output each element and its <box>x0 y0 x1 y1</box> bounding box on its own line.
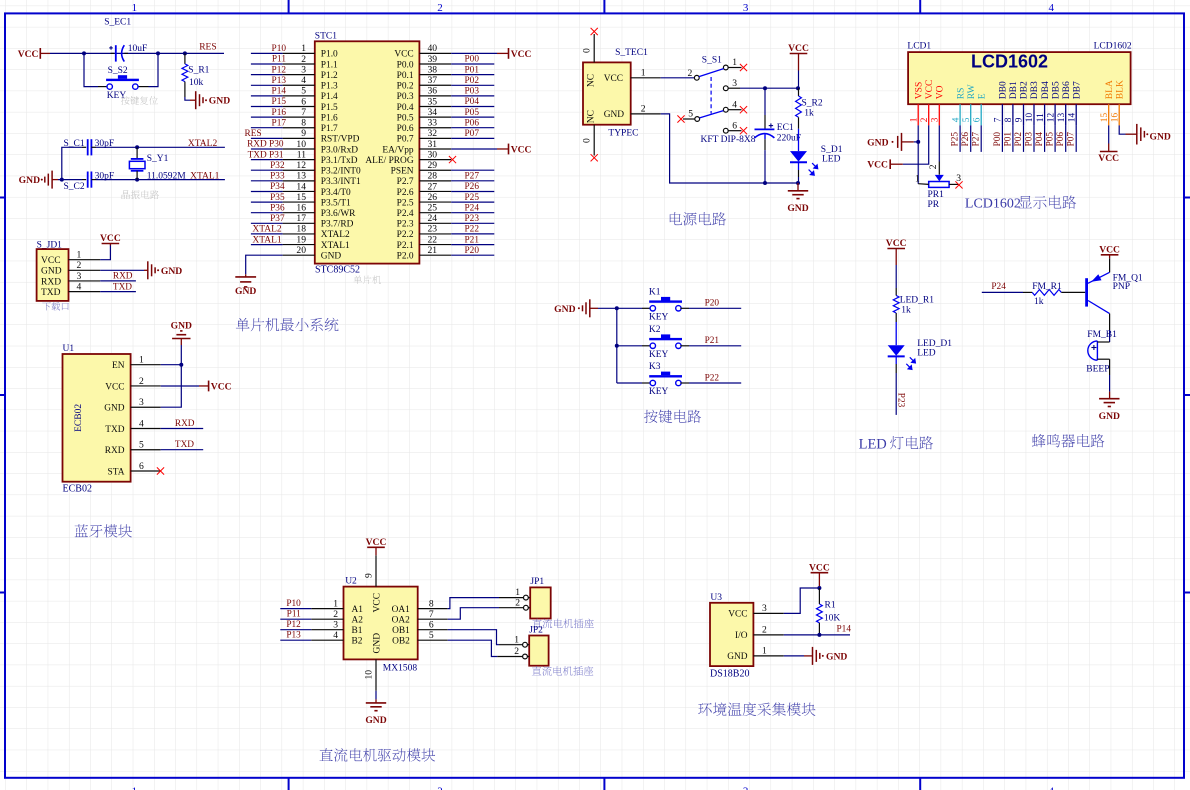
svg-text:1: 1 <box>514 634 519 645</box>
power ground GND (buzzer) <box>1099 399 1120 422</box>
svg-text:GND: GND <box>161 266 182 277</box>
svg-text:34: 34 <box>428 107 438 118</box>
wire S_JD1 pin3 RXD <box>100 272 136 282</box>
switch S_S2 KEY (reset key) <box>84 53 158 100</box>
svg-text:GND: GND <box>1099 411 1120 422</box>
svg-text:LCD1602: LCD1602 <box>1094 42 1132 52</box>
svg-text:2: 2 <box>514 646 519 657</box>
svg-text:2: 2 <box>77 260 82 271</box>
svg-text:10k: 10k <box>189 78 204 88</box>
svg-text:P2.1: P2.1 <box>397 241 414 251</box>
svg-text:P3.1/TxD: P3.1/TxD <box>321 156 358 166</box>
svg-text:13: 13 <box>1057 113 1067 123</box>
wire S_JD1 pin1 to VCC <box>100 246 110 260</box>
power port VCC (U3) <box>809 562 830 588</box>
svg-text:P07: P07 <box>465 129 480 139</box>
svg-text:P0.6: P0.6 <box>397 124 414 134</box>
svg-text:BLA: BLA <box>1105 80 1115 99</box>
svg-text:TXD P31: TXD P31 <box>248 150 284 160</box>
svg-text:VCC: VCC <box>105 382 124 392</box>
wire OA1 to JP1 pin1 <box>448 598 499 609</box>
svg-text:3: 3 <box>301 64 306 75</box>
wire U1 pin5 net TXD <box>161 440 204 450</box>
svg-text:22: 22 <box>428 234 438 245</box>
capacitor S_C2 30pF <box>64 171 115 192</box>
wire+net XTAL2 (STC1 pin18) <box>251 225 283 235</box>
svg-text:GND: GND <box>19 175 40 186</box>
LED LED_D1 <box>888 322 953 415</box>
svg-text:KEY: KEY <box>649 313 669 323</box>
resistor S_R2 1k <box>796 88 823 129</box>
svg-text:P17: P17 <box>272 118 287 128</box>
svg-text:P14: P14 <box>272 87 287 97</box>
svg-text:P1.5: P1.5 <box>321 103 338 113</box>
svg-text:VCC: VCC <box>366 537 387 548</box>
no-connect X on U1 pin6 <box>157 467 164 474</box>
wire U1 pin1 EN to GND <box>161 339 184 367</box>
svg-text:P04: P04 <box>465 97 480 107</box>
svg-text:P26: P26 <box>961 132 971 147</box>
svg-text:KFT DIP-8X8: KFT DIP-8X8 <box>701 135 756 145</box>
svg-text:10: 10 <box>364 670 375 680</box>
svg-text:DB0: DB0 <box>999 81 1009 99</box>
svg-text:JP1: JP1 <box>530 577 544 587</box>
svg-text:NC: NC <box>587 74 597 87</box>
S_TEC1 pin1 stub <box>631 67 661 78</box>
svg-text:4: 4 <box>139 418 144 429</box>
svg-text:TXD: TXD <box>113 282 132 292</box>
svg-text:4: 4 <box>732 99 737 110</box>
svg-text:U2: U2 <box>345 576 357 586</box>
junction dots bottom rail <box>763 181 800 185</box>
svg-text:7: 7 <box>301 107 306 118</box>
svg-text:0: 0 <box>582 138 593 143</box>
power port VCC (LED) <box>886 238 907 288</box>
power ground GND (power circuit) <box>787 183 808 214</box>
power ground GND (backlight) <box>1126 124 1171 145</box>
svg-text:VCC: VCC <box>604 74 623 84</box>
svg-text:JP2: JP2 <box>529 625 543 635</box>
power ground GND (crystal) <box>19 171 58 189</box>
svg-text:13: 13 <box>296 171 306 182</box>
svg-text:1: 1 <box>762 646 767 657</box>
svg-text:P10: P10 <box>286 599 301 609</box>
svg-text:P10: P10 <box>272 44 287 54</box>
svg-text:0: 0 <box>582 48 593 53</box>
svg-text:6: 6 <box>139 461 144 472</box>
svg-text:S_S2: S_S2 <box>108 66 128 76</box>
wire VCC to RES net <box>40 52 224 54</box>
svg-text:P1.1: P1.1 <box>321 60 338 70</box>
svg-text:S_C2: S_C2 <box>64 182 85 192</box>
svg-text:3: 3 <box>333 620 338 631</box>
svg-text:P22: P22 <box>465 225 480 235</box>
svg-text:E: E <box>977 93 987 99</box>
STC1 left wires rows 1-8 with net labels P10-P17 <box>251 44 286 128</box>
power port VCC (LCD) <box>867 159 890 170</box>
svg-text:5: 5 <box>429 630 434 641</box>
svg-text:7: 7 <box>994 117 1004 122</box>
wire LCD pin15 BLA to VCC <box>1108 125 1110 151</box>
LCD display LCD1 LCD1602 <box>907 42 1131 105</box>
svg-text:2: 2 <box>437 2 443 14</box>
svg-text:RES: RES <box>199 43 216 53</box>
svg-text:GND: GND <box>209 96 230 107</box>
no-connect X on STC1 pin30 <box>449 156 456 163</box>
svg-text:1: 1 <box>77 250 82 261</box>
svg-text:P13: P13 <box>286 631 301 641</box>
svg-text:P0.1: P0.1 <box>397 71 414 81</box>
svg-text:38: 38 <box>428 64 438 75</box>
power ground GND (S_JD1) <box>144 261 182 279</box>
wire OB2 to JP2 pin2 <box>448 640 498 656</box>
wire+net RES (STC1 pin9) <box>245 129 283 139</box>
svg-text:LCD1: LCD1 <box>907 42 931 52</box>
svg-text:DB7: DB7 <box>1072 81 1082 99</box>
svg-text:XTAL1: XTAL1 <box>321 241 350 251</box>
svg-text:P21: P21 <box>705 336 720 346</box>
svg-text:U3: U3 <box>710 593 722 603</box>
svg-text:2: 2 <box>920 117 930 122</box>
net label XTAL2 <box>188 139 218 149</box>
svg-text:P34: P34 <box>270 182 285 192</box>
svg-text:11: 11 <box>297 149 306 160</box>
svg-text:P14: P14 <box>837 625 852 635</box>
wire S_JD1 pin2 to GND <box>100 269 144 271</box>
wire U3 pin2 I/O net P14 <box>784 625 852 637</box>
svg-text:2: 2 <box>437 786 443 790</box>
svg-text:RXD: RXD <box>105 446 125 456</box>
wire STC1 pin40 VCC port <box>451 48 531 60</box>
wire+nets RXD P30 (STC1 pin10) <box>247 140 284 150</box>
wire LCD pin2 to VCC port <box>890 125 929 164</box>
svg-text:KEY: KEY <box>649 350 669 360</box>
transistor FM_Q1 PNP <box>1085 258 1143 313</box>
svg-text:P05: P05 <box>1046 132 1056 147</box>
power port VCC (buzzer) <box>1099 244 1120 258</box>
svg-text:VCC: VCC <box>41 256 61 266</box>
svg-text:R1: R1 <box>825 600 836 610</box>
svg-text:P3.0/RxD: P3.0/RxD <box>321 145 358 155</box>
title 蓝牙模块 <box>75 524 132 537</box>
svg-text:DB6: DB6 <box>1062 81 1072 99</box>
switch K2 KEY <box>617 325 689 360</box>
svg-text:BEEP: BEEP <box>1086 365 1109 375</box>
wire C1 to XTAL2 <box>96 145 225 149</box>
svg-text:GND: GND <box>41 267 62 277</box>
svg-text:37: 37 <box>428 75 438 86</box>
svg-text:1k: 1k <box>1034 297 1044 307</box>
wire+net P20 <box>689 299 741 309</box>
svg-text:21: 21 <box>428 245 438 256</box>
power ground GND (reset) <box>190 91 230 109</box>
svg-text:GND: GND <box>1150 131 1171 142</box>
capacitor EC1 220uF electrolytic <box>755 88 802 183</box>
svg-text:3: 3 <box>743 2 749 14</box>
svg-text:P02: P02 <box>1014 132 1024 147</box>
svg-text:4: 4 <box>1048 786 1054 790</box>
svg-text:1: 1 <box>132 786 138 790</box>
svg-text:VCC: VCC <box>1099 244 1120 255</box>
svg-text:3: 3 <box>931 117 941 122</box>
resistor S_R1 10k <box>182 53 210 100</box>
svg-text:P0.0: P0.0 <box>397 60 414 70</box>
svg-text:35: 35 <box>428 96 438 107</box>
resistor R1 10K <box>817 588 841 635</box>
annotation 单片机 <box>353 275 381 284</box>
svg-text:P05: P05 <box>465 108 480 118</box>
svg-text:8: 8 <box>429 598 434 609</box>
svg-text:VCC: VCC <box>1098 153 1119 164</box>
svg-text:3: 3 <box>139 397 144 408</box>
svg-text:OB2: OB2 <box>392 637 410 647</box>
svg-text:S_R1: S_R1 <box>188 66 209 76</box>
svg-text:VCC: VCC <box>211 381 232 392</box>
power port VCC (backlight) <box>1098 152 1119 165</box>
svg-text:31: 31 <box>428 139 438 150</box>
U2 right pin stubs with numbers 8-5 <box>418 598 448 641</box>
svg-text:P24: P24 <box>465 203 480 213</box>
svg-text:PR1: PR1 <box>928 190 945 200</box>
svg-text:8: 8 <box>301 118 306 129</box>
svg-text:DB3: DB3 <box>1030 81 1040 99</box>
svg-text:1: 1 <box>139 355 144 366</box>
svg-text:RS: RS <box>956 88 966 100</box>
svg-text:DB2: DB2 <box>1020 81 1030 99</box>
annotation 下载口 <box>42 302 68 310</box>
LED S_D1 (power) <box>790 129 843 183</box>
svg-text:P27: P27 <box>465 172 480 182</box>
svg-text:GND: GND <box>104 404 125 414</box>
svg-text:14: 14 <box>1067 113 1077 123</box>
svg-text:3: 3 <box>77 271 82 282</box>
label 直流电机插座 (JP1) <box>532 619 593 629</box>
wire S_JD1 pin4 TXD <box>100 282 136 292</box>
svg-text:4: 4 <box>1048 2 1054 14</box>
svg-text:RXD: RXD <box>175 419 195 429</box>
svg-text:30: 30 <box>428 149 438 160</box>
svg-text:RES: RES <box>245 129 262 139</box>
svg-text:6: 6 <box>732 120 737 131</box>
label 直流电机插座 (JP2) <box>532 666 593 676</box>
wire U1 pin4 net RXD <box>161 419 204 429</box>
wire+net P22 <box>689 373 741 383</box>
svg-text:ALE/ PROG: ALE/ PROG <box>365 156 413 166</box>
svg-text:1: 1 <box>909 117 919 122</box>
svg-text:P12: P12 <box>286 620 301 630</box>
svg-text:P1.2: P1.2 <box>321 71 338 81</box>
svg-text:P15: P15 <box>272 97 287 107</box>
title 蜂鸣器电路 <box>1032 434 1104 447</box>
junction dots on reset rail <box>82 51 187 55</box>
svg-text:TXD: TXD <box>175 440 194 450</box>
STC1 right wires rows 2-9 with net labels P00-P07 <box>451 55 494 139</box>
power ground GND (keys) <box>554 299 598 317</box>
wire+net P21 <box>689 336 741 346</box>
svg-text:3: 3 <box>732 78 737 89</box>
svg-text:P00: P00 <box>993 132 1003 147</box>
svg-text:P26: P26 <box>465 182 480 192</box>
svg-text:U1: U1 <box>63 344 75 354</box>
svg-text:P22: P22 <box>705 373 720 383</box>
svg-text:P37: P37 <box>270 214 285 224</box>
svg-text:TXD: TXD <box>105 425 124 435</box>
svg-text:5: 5 <box>688 108 693 119</box>
svg-text:11.0592M: 11.0592M <box>147 171 187 181</box>
pin6 no-connect X <box>728 127 747 134</box>
svg-text:5: 5 <box>301 86 306 97</box>
svg-text:9: 9 <box>364 573 375 578</box>
svg-text:P25: P25 <box>951 132 961 147</box>
svg-text:P12: P12 <box>272 65 287 75</box>
svg-text:A1: A1 <box>352 605 364 615</box>
svg-text:6: 6 <box>429 620 434 631</box>
svg-text:10: 10 <box>1025 113 1035 123</box>
svg-text:VCC: VCC <box>728 610 747 620</box>
STC1 left wires rows 12-17 with net labels P32-P37 <box>251 161 285 224</box>
svg-text:NC: NC <box>587 110 597 123</box>
connector JP2 <box>497 625 548 665</box>
svg-text:EA/Vpp: EA/Vpp <box>382 145 414 155</box>
svg-text:36: 36 <box>428 86 438 97</box>
svg-text:DB4: DB4 <box>1041 81 1051 99</box>
capacitor S_C1 30pF <box>64 139 115 155</box>
svg-text:19: 19 <box>296 234 306 245</box>
svg-text:S_S1: S_S1 <box>702 56 722 66</box>
svg-text:2: 2 <box>333 609 338 620</box>
svg-text:PNP: PNP <box>1113 282 1130 292</box>
svg-text:P2.4: P2.4 <box>397 209 414 219</box>
svg-text:OA2: OA2 <box>392 616 411 626</box>
LCD pin stubs and pin numbers 1-16 <box>909 104 1120 125</box>
potentiometer PR1 PR <box>915 173 961 210</box>
svg-text:VSS: VSS <box>914 82 924 99</box>
svg-text:GND: GND <box>727 652 748 662</box>
connector JP1 <box>499 577 551 618</box>
svg-text:ECB02: ECB02 <box>63 484 92 495</box>
svg-text:XTAL1: XTAL1 <box>252 235 282 245</box>
wire U3 pin3 VCC to R1 top <box>784 586 822 613</box>
svg-text:GND: GND <box>321 251 342 261</box>
svg-text:25: 25 <box>428 203 438 214</box>
svg-text:11: 11 <box>1036 113 1046 122</box>
svg-text:GND: GND <box>373 633 383 654</box>
svg-text:3: 3 <box>762 603 767 614</box>
svg-text:RXD: RXD <box>113 272 133 282</box>
crystal S_Y1 11.0592M <box>129 147 186 181</box>
svg-text:220uF: 220uF <box>777 133 801 143</box>
title 直流电机驱动模块 <box>320 748 436 762</box>
svg-text:10: 10 <box>296 139 306 150</box>
svg-text:P2.0: P2.0 <box>397 251 414 261</box>
svg-text:4: 4 <box>77 281 82 292</box>
svg-text:P33: P33 <box>270 172 285 182</box>
svg-text:23: 23 <box>428 224 438 235</box>
svg-text:P23: P23 <box>465 214 480 224</box>
svg-text:K3: K3 <box>649 362 661 372</box>
wire STC1 pin31 VCC port <box>451 144 531 156</box>
svg-text:39: 39 <box>428 54 438 65</box>
microcontroller STC1 STC89C52 <box>315 31 420 275</box>
resistor LED_R1 1k <box>893 288 934 322</box>
svg-text:P11: P11 <box>287 610 301 620</box>
power ground GND (STC1 pin20) <box>235 277 256 297</box>
title 电源电路 <box>670 212 726 225</box>
svg-text:STA: STA <box>108 467 125 477</box>
svg-text:P1.7: P1.7 <box>321 124 338 134</box>
resistor FM_R1 1k <box>1023 282 1085 307</box>
svg-text:LCD1602: LCD1602 <box>971 52 1048 72</box>
wire+net XTAL1 (STC1 pin19) <box>251 235 283 245</box>
svg-text:TYPEC: TYPEC <box>608 129 638 139</box>
svg-text:KEY: KEY <box>649 387 669 397</box>
svg-text:24: 24 <box>428 213 438 224</box>
svg-text:P32: P32 <box>270 161 285 171</box>
svg-text:P3.6/WR: P3.6/WR <box>321 209 356 219</box>
svg-text:P0.3: P0.3 <box>397 92 414 102</box>
svg-text:2: 2 <box>688 68 693 79</box>
svg-text:S_C1: S_C1 <box>64 139 85 149</box>
STC1 left pin stubs and numbers 1-20 <box>283 43 315 256</box>
svg-text:28: 28 <box>428 171 438 182</box>
svg-text:P2.7: P2.7 <box>397 177 414 187</box>
connector S_TEC1 TYPEC <box>583 48 648 139</box>
svg-text:DS18B20: DS18B20 <box>710 668 749 679</box>
wire LCD pin1 VSS to GND <box>916 125 920 183</box>
svg-text:5: 5 <box>962 117 972 122</box>
svg-text:2: 2 <box>762 625 767 636</box>
svg-text:16: 16 <box>1110 113 1120 123</box>
svg-text:LED_R1: LED_R1 <box>900 296 935 306</box>
svg-text:P3.5/T1: P3.5/T1 <box>321 198 351 208</box>
svg-text:PR: PR <box>928 200 940 210</box>
svg-text:VCC: VCC <box>925 80 935 100</box>
svg-text:18: 18 <box>296 224 306 235</box>
svg-text:12: 12 <box>296 160 306 171</box>
svg-text:33: 33 <box>428 118 438 129</box>
svg-text:P20: P20 <box>465 246 480 256</box>
svg-text:1: 1 <box>333 598 338 609</box>
wire OB1 to JP2 pin1 <box>448 630 499 645</box>
svg-text:LCD1602: LCD1602 <box>965 197 1021 212</box>
power port VCC (reset circuit) <box>18 48 41 60</box>
svg-text:15: 15 <box>1100 113 1110 123</box>
svg-text:P00: P00 <box>465 55 480 65</box>
temperature sensor U3 DS18B20 <box>710 593 784 679</box>
STC1 right pin stubs and numbers 40-21 <box>419 43 451 256</box>
svg-text:1k: 1k <box>804 109 814 119</box>
svg-text:27: 27 <box>428 181 438 192</box>
svg-text:RXD: RXD <box>41 277 61 287</box>
svg-text:1: 1 <box>732 57 737 68</box>
pin1 no-connect X <box>728 64 747 71</box>
svg-text:OB1: OB1 <box>392 626 410 636</box>
svg-text:26: 26 <box>428 192 438 203</box>
svg-text:EN: EN <box>112 361 125 371</box>
svg-text:PSEN: PSEN <box>391 167 414 177</box>
svg-text:VO: VO <box>936 85 946 99</box>
svg-text:2: 2 <box>301 54 306 65</box>
svg-text:GND: GND <box>867 137 888 148</box>
svg-text:1: 1 <box>132 2 138 14</box>
svg-text:VCC: VCC <box>788 43 809 54</box>
U2 pin9 to VCC port <box>364 537 387 587</box>
svg-text:4: 4 <box>301 75 306 86</box>
svg-text:GND: GND <box>826 651 847 662</box>
svg-text:P25: P25 <box>465 193 480 203</box>
svg-text:S_R2: S_R2 <box>802 98 823 108</box>
net label XTAL1 <box>190 171 220 181</box>
